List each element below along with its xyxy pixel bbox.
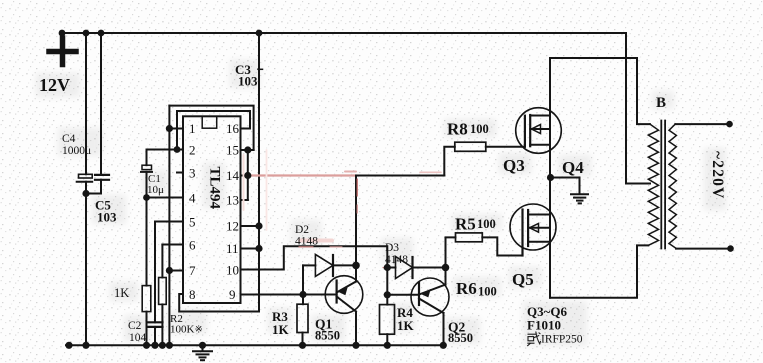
junction pin7 line ground <box>166 342 173 349</box>
junction D3 cathode / Q2 collector / R5 <box>442 264 450 272</box>
svg-text:14: 14 <box>226 168 240 183</box>
svg-text:103: 103 <box>238 74 258 89</box>
ground under IC <box>202 345 204 351</box>
junction Q2 base / R4 <box>384 291 391 298</box>
wire pin5 <box>155 221 183 223</box>
junction C4 top rail <box>83 30 90 37</box>
svg-text:1: 1 <box>189 121 196 136</box>
wire Q3 drain to transformer <box>550 58 650 124</box>
transistor Q1 <box>325 276 363 314</box>
wire secondary output top <box>675 123 729 125</box>
junction pin2 <box>174 146 181 153</box>
svg-text:4148: 4148 <box>295 236 318 248</box>
wire inner loop pin2 to pin16 <box>177 111 250 150</box>
svg-text:1K: 1K <box>272 322 290 337</box>
svg-text:4: 4 <box>189 191 196 206</box>
junction C2 ground <box>151 342 158 349</box>
junction pin12 <box>255 222 262 229</box>
svg-text:R6: R6 <box>456 279 477 298</box>
svg-text:12V: 12V <box>39 75 70 95</box>
wire pins15-14-13 vertical <box>247 150 249 200</box>
wire top 12V rail <box>62 33 650 184</box>
svg-text:100K※: 100K※ <box>170 324 203 336</box>
junction 1K resistor ground <box>143 342 150 349</box>
junction pin14 <box>244 172 251 179</box>
svg-text:1000μ: 1000μ <box>62 145 91 157</box>
svg-text:B: B <box>656 95 666 111</box>
svg-text:6: 6 <box>189 238 196 253</box>
wire pin13 tick <box>241 199 248 201</box>
wire pin10 to D3 <box>241 246 388 269</box>
wire R8 to Q3 gate <box>486 146 525 148</box>
wire R8 left lead <box>444 147 455 176</box>
wire pin12 tick <box>241 225 260 227</box>
svg-text:D3: D3 <box>385 242 399 254</box>
svg-text:10: 10 <box>226 263 239 278</box>
wire pin4 <box>147 197 184 199</box>
transistor Q2 <box>411 278 449 316</box>
wire pin2 to C1 <box>147 149 184 151</box>
wire pin11 tick <box>241 248 260 250</box>
svg-text:1K: 1K <box>114 286 129 300</box>
junction C5 top rail <box>98 30 105 37</box>
svg-text:100: 100 <box>470 122 489 136</box>
svg-text:~220V: ~220V <box>709 151 726 200</box>
resistor 1K (left) <box>146 198 148 286</box>
svg-text:F1010: F1010 <box>527 318 561 333</box>
terminal 220V output top <box>726 121 733 128</box>
svg-text:4148: 4148 <box>385 254 408 266</box>
junction R3 ground <box>299 342 306 349</box>
terminal 220V output bottom <box>727 245 734 252</box>
resistor R8 <box>455 142 486 151</box>
resistor R4 <box>386 295 388 305</box>
compression artifacts (red traces) <box>244 150 442 268</box>
wire pin15 tick <box>241 149 254 151</box>
junction R4 ground <box>384 342 391 349</box>
svg-text:8550: 8550 <box>315 329 340 343</box>
svg-text:Q4: Q4 <box>562 158 584 177</box>
wire pin6 <box>162 244 183 246</box>
wire Q3 source / Q5 drain node <box>549 178 551 298</box>
svg-text:16: 16 <box>226 121 240 136</box>
junction D2 cathode / Q1 collector / R8 line <box>352 262 360 270</box>
junction Q1 base / pin9 / R3 <box>299 291 306 298</box>
wire pin14 to R8/D2 (faded pink segment) <box>249 174 356 176</box>
IC pin numbers <box>189 121 240 302</box>
svg-text:7: 7 <box>189 263 196 278</box>
junction D3 anode / pin10 <box>384 264 391 271</box>
ground at Q4 node <box>551 178 580 194</box>
svg-text:R8: R8 <box>447 120 468 139</box>
svg-text:100: 100 <box>477 217 496 231</box>
svg-text:2: 2 <box>189 143 196 158</box>
wire pin7 tick <box>169 270 183 272</box>
svg-text:103: 103 <box>97 210 117 225</box>
junction Q2 emitter ground <box>440 342 447 349</box>
svg-text:11: 11 <box>226 241 239 256</box>
junction ground rail left end <box>65 342 72 349</box>
junction R2 ground <box>159 342 166 349</box>
svg-text:5: 5 <box>189 215 196 230</box>
resistor R3 <box>302 295 304 305</box>
IC U1 TL494 body <box>183 116 241 303</box>
transformer core <box>660 121 662 249</box>
svg-text:8: 8 <box>189 287 196 302</box>
svg-text:3: 3 <box>189 166 196 181</box>
junction pin15 <box>244 146 251 153</box>
junction node Q4 (Q3 source / Q5 drain / ground) <box>547 174 554 181</box>
svg-text:D2: D2 <box>295 224 309 236</box>
junction 12V terminal <box>59 30 66 37</box>
svg-text:C2: C2 <box>128 320 142 332</box>
diode D2 <box>302 265 304 294</box>
wire D3 anode to Q2 base <box>386 268 388 295</box>
svg-text:8550: 8550 <box>448 331 473 345</box>
wire pin14 horizontal black part <box>356 175 444 177</box>
capacitor C3 nub <box>258 68 263 70</box>
resistor R5 <box>456 233 483 242</box>
svg-text:100: 100 <box>478 285 497 299</box>
junction pin11 <box>255 245 262 252</box>
resistor R2 <box>159 278 167 305</box>
wire pin1-pin7-gnd vertical <box>168 106 170 346</box>
wire pin16 tick <box>241 128 251 130</box>
wire pin1 <box>169 128 183 130</box>
capacitor C1 <box>146 150 148 166</box>
wire VCC vertical C3 line <box>258 33 260 312</box>
svg-text:104: 104 <box>129 332 147 344</box>
svg-text:13: 13 <box>226 193 239 208</box>
junction C4 lead ground rail <box>82 342 89 349</box>
wire pin8 to VCC U-loop <box>179 294 259 312</box>
diode D3 <box>387 267 395 269</box>
svg-text:1K: 1K <box>397 318 415 333</box>
junction Q1 emitter ground <box>352 342 359 349</box>
transformer secondary winding <box>669 124 676 249</box>
capacitor C4 <box>85 33 87 174</box>
hanzi "huo" hand-drawn <box>527 332 540 347</box>
mosfet Q5 <box>510 204 556 250</box>
svg-text:9: 9 <box>229 287 236 302</box>
svg-text:TL494: TL494 <box>207 167 223 210</box>
battery + symbol <box>49 38 76 65</box>
svg-text:10μ: 10μ <box>147 184 164 196</box>
junction pin7 <box>166 267 173 274</box>
svg-text:R5: R5 <box>455 215 476 234</box>
wire vertical to D2 cathode <box>355 176 357 266</box>
wire outer loop pin1 to pin15 <box>169 106 253 150</box>
junction ground symbol tap <box>199 342 206 349</box>
svg-text:15: 15 <box>226 143 239 158</box>
mosfet Q3 <box>516 108 562 154</box>
svg-text:Q5: Q5 <box>512 270 534 289</box>
wire pin14 tick <box>241 175 250 177</box>
svg-text:12: 12 <box>226 219 239 234</box>
capacitor C2 <box>148 321 163 323</box>
wire Q5 source to transformer bottom <box>550 245 648 297</box>
wire secondary output bottom <box>676 248 731 250</box>
transformer B primary winding <box>648 124 658 245</box>
junction C4/C5 bottom <box>82 190 89 197</box>
svg-text:C4: C4 <box>62 133 76 145</box>
capacitor C5 <box>100 33 102 175</box>
svg-text:IRFP250: IRFP250 <box>541 334 583 346</box>
junction pin4/C1 <box>143 194 150 201</box>
junction VCC line top rail <box>256 30 263 37</box>
junction pin1 <box>166 125 173 132</box>
wire bottom ground rail <box>66 344 443 346</box>
wire pin3 tick <box>177 172 183 174</box>
svg-text:Q3: Q3 <box>503 156 525 175</box>
wire pin9 to Q1 base <box>241 294 304 296</box>
paper mottle halos <box>36 60 726 346</box>
